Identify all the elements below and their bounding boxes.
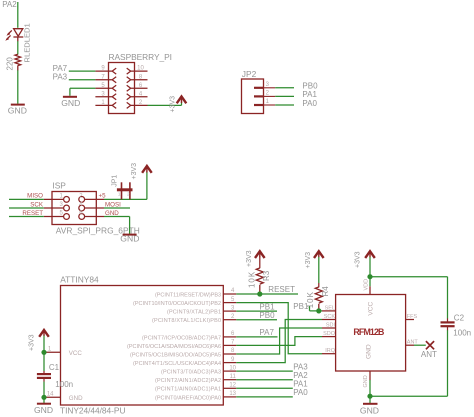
svg-text:PA3: PA3 bbox=[53, 72, 68, 81]
svg-text:RESET: RESET bbox=[22, 210, 43, 217]
svg-text:GND: GND bbox=[34, 405, 53, 415]
svg-text:RESET: RESET bbox=[268, 285, 295, 294]
svg-text:10: 10 bbox=[229, 365, 236, 371]
svg-text:ANT: ANT bbox=[421, 350, 437, 359]
svg-text:(PCINT5/OC1B/MISO/DO/ADC5)PA5: (PCINT5/OC1B/MISO/DO/ADC5)PA5 bbox=[130, 352, 221, 358]
svg-text:GND: GND bbox=[360, 406, 379, 416]
svg-text:(PCINT2/AIN1/ADC2)PA2: (PCINT2/AIN1/ADC2)PA2 bbox=[155, 378, 221, 384]
svg-text:13: 13 bbox=[229, 391, 236, 397]
svg-text:+3V3: +3V3 bbox=[131, 163, 138, 180]
svg-text:+3V3: +3V3 bbox=[170, 96, 177, 113]
svg-text:PA0: PA0 bbox=[302, 99, 317, 108]
svg-text:SDI: SDI bbox=[326, 322, 336, 328]
svg-text:(PCINT7/ICP/OC0B/ADC7)PA7: (PCINT7/ICP/OC0B/ADC7)PA7 bbox=[142, 335, 221, 341]
svg-text:SCK: SCK bbox=[30, 201, 44, 208]
svg-text:(PCINT10/INT0/OC0A/CKOUT)PB2: (PCINT10/INT0/OC0A/CKOUT)PB2 bbox=[133, 301, 221, 307]
svg-text:+3V3: +3V3 bbox=[354, 251, 361, 268]
svg-text:GND: GND bbox=[105, 210, 119, 217]
svg-text:(PCINT6/OC1A/SDA/MOSI/ADC6)PA6: (PCINT6/OC1A/SDA/MOSI/ADC6)PA6 bbox=[127, 344, 221, 350]
svg-text:12: 12 bbox=[229, 383, 236, 389]
svg-text:GND: GND bbox=[365, 344, 372, 359]
svg-text:SDO: SDO bbox=[323, 331, 336, 337]
svg-text:C1: C1 bbox=[49, 363, 60, 372]
svg-text:(PCINT8/XTAL1/CLKI)PB0: (PCINT8/XTAL1/CLKI)PB0 bbox=[152, 318, 221, 324]
svg-text:VCC: VCC bbox=[69, 350, 83, 357]
svg-text:100n: 100n bbox=[453, 328, 471, 337]
svg-text:RASPBERRY_PI: RASPBERRY_PI bbox=[109, 52, 173, 62]
svg-text:MOSI: MOSI bbox=[105, 201, 121, 208]
svg-text:GND: GND bbox=[120, 234, 139, 244]
svg-text:(PCINT11/RESET/DW)PB3: (PCINT11/RESET/DW)PB3 bbox=[155, 292, 221, 298]
svg-text:JP2: JP2 bbox=[242, 69, 257, 79]
svg-text:(PCINT4/T1/SCL/USCK/ADC4)PA4: (PCINT4/T1/SCL/USCK/ADC4)PA4 bbox=[133, 361, 221, 367]
svg-text:10K: 10K bbox=[248, 271, 257, 288]
svg-text:GND: GND bbox=[69, 395, 83, 402]
svg-text:PA7: PA7 bbox=[259, 328, 274, 337]
svg-text:+3V3: +3V3 bbox=[305, 252, 312, 269]
svg-text:TINY24/44/84-PU: TINY24/44/84-PU bbox=[60, 405, 126, 415]
svg-text:GND: GND bbox=[8, 106, 27, 116]
svg-text:JP1: JP1 bbox=[112, 175, 119, 187]
svg-text:PA2: PA2 bbox=[2, 0, 17, 9]
svg-text:10K: 10K bbox=[306, 291, 315, 308]
svg-text:VDD: VDD bbox=[363, 279, 369, 291]
svg-text:GND: GND bbox=[363, 375, 369, 387]
svg-text:ISP: ISP bbox=[52, 180, 66, 190]
svg-text:RLEDLED1: RLEDLED1 bbox=[23, 23, 32, 62]
svg-text:+3V3: +3V3 bbox=[28, 334, 35, 351]
svg-text:PB0: PB0 bbox=[259, 311, 275, 320]
svg-text:RFM12B: RFM12B bbox=[353, 327, 384, 337]
svg-text:SEL: SEL bbox=[325, 305, 335, 311]
svg-text:100n: 100n bbox=[55, 380, 73, 389]
svg-text:R3: R3 bbox=[262, 270, 271, 281]
svg-text:VCC: VCC bbox=[367, 301, 374, 315]
svg-text:(PCINT9/XTAL2)PB1: (PCINT9/XTAL2)PB1 bbox=[167, 310, 221, 316]
svg-text:IRQ: IRQ bbox=[325, 348, 336, 354]
svg-text:(PCINT0/AREF/ADC0)PA0: (PCINT0/AREF/ADC0)PA0 bbox=[155, 395, 221, 401]
svg-text:ATTINY84: ATTINY84 bbox=[60, 275, 99, 285]
svg-text:C2: C2 bbox=[454, 313, 465, 322]
svg-text:+3V3: +3V3 bbox=[246, 250, 253, 267]
svg-text:1: 1 bbox=[118, 192, 121, 197]
svg-text:2: 2 bbox=[127, 192, 130, 197]
svg-text:PA0: PA0 bbox=[293, 388, 308, 397]
svg-text:MISO: MISO bbox=[27, 193, 43, 200]
svg-text:SCK: SCK bbox=[324, 314, 336, 320]
svg-text:(PCINT1/AIN0/ADC1)PA1: (PCINT1/AIN0/ADC1)PA1 bbox=[155, 387, 221, 393]
svg-text:R4: R4 bbox=[321, 286, 330, 297]
svg-text:14: 14 bbox=[47, 392, 54, 398]
svg-text:10: 10 bbox=[137, 66, 144, 72]
svg-text:GND: GND bbox=[61, 98, 80, 108]
svg-text:(PCINT3/T0/ADC3)PA3: (PCINT3/T0/ADC3)PA3 bbox=[161, 370, 221, 376]
svg-text:+5: +5 bbox=[99, 193, 107, 200]
svg-text:FFS: FFS bbox=[407, 314, 418, 320]
svg-text:11: 11 bbox=[230, 374, 237, 380]
svg-text:220: 220 bbox=[5, 57, 14, 71]
